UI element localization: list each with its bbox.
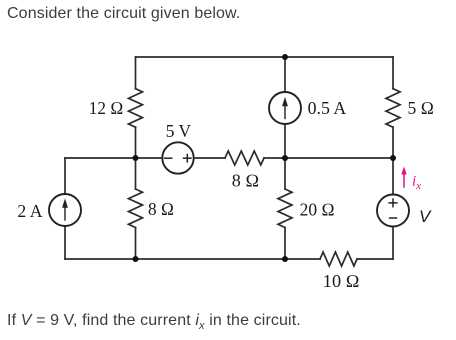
resistor R 5ohm vertical	[386, 89, 400, 128]
wire bottom horizontal left of 10ohm	[65, 258, 320, 260]
current arrow ix magenta	[401, 167, 406, 188]
wire middle horizontal 5V to 8ohm	[194, 157, 225, 159]
node dot middle x=135	[133, 155, 139, 161]
current source 2A circle	[49, 194, 81, 226]
wire x=393 top lead	[392, 57, 394, 89]
node dot middle x=285	[282, 155, 288, 161]
current source 0.5A circle	[269, 92, 301, 124]
node dot middle x=393	[390, 155, 396, 161]
current source 0.5A arrow	[282, 97, 288, 119]
wire bottom horizontal right of 10ohm	[357, 258, 393, 260]
voltage source 5V minus sign	[165, 157, 172, 159]
svg-text:5 Ω: 5 Ω	[408, 98, 435, 118]
resistor R 8ohm vertical	[129, 189, 143, 228]
resistor R 20ohm vertical	[278, 189, 292, 228]
wire x=135 8ohm to bottom	[135, 228, 137, 260]
svg-text:12 Ω: 12 Ω	[89, 98, 124, 118]
svg-text:5 V: 5 V	[166, 121, 191, 141]
wire x=393 V source to bottom	[392, 227, 394, 260]
svg-text:ix: ix	[412, 173, 421, 192]
voltage source 5V circle	[162, 142, 193, 173]
wire left branch vertical lower	[64, 226, 66, 259]
current source 2A arrow	[62, 198, 68, 220]
svg-text:20 Ω: 20 Ω	[300, 199, 335, 219]
wire x=135 middle to 8ohm	[135, 158, 137, 189]
resistor R 8ohm horizontal	[225, 151, 264, 165]
wire middle horizontal 8ohm to right	[264, 157, 393, 159]
problem statement bottom	[7, 313, 301, 334]
svg-text:8 Ω: 8 Ω	[148, 199, 174, 219]
wire x=135 between 12ohm and middle	[135, 127, 137, 158]
svg-text:0.5 A: 0.5 A	[308, 98, 347, 118]
resistor R 10ohm horizontal	[320, 252, 357, 266]
svg-text:V: V	[419, 207, 432, 226]
node dot bottom x=135	[133, 256, 139, 262]
wire x=285 20ohm to bottom	[284, 228, 286, 260]
wire x=285 middle to 20ohm	[284, 158, 286, 189]
voltage source 5V plus sign	[184, 155, 191, 162]
wire x=393 5ohm to middle	[392, 127, 394, 158]
wire left branch vertical upper	[64, 158, 66, 194]
svg-text:10 Ω: 10 Ω	[323, 271, 360, 291]
wire middle horizontal left of 5V source	[65, 157, 162, 159]
svg-text:8 Ω: 8 Ω	[232, 170, 260, 190]
voltage source V circle	[377, 195, 409, 227]
resistor R 12ohm vertical	[129, 89, 143, 128]
problem statement top	[7, 6, 240, 22]
wire x=135 top lead	[135, 57, 137, 89]
voltage source V minus sign	[390, 217, 397, 219]
wire x=285 top to 0.5A	[284, 57, 286, 92]
node dot bottom x=285	[282, 256, 288, 262]
voltage source V plus sign	[389, 199, 397, 207]
wire x=393 middle to V source	[392, 158, 394, 195]
node dot top x=285	[282, 54, 288, 60]
svg-text:2 A: 2 A	[17, 201, 42, 221]
wire x=285 0.5A to middle	[284, 124, 286, 158]
wire top horizontal	[136, 56, 394, 58]
